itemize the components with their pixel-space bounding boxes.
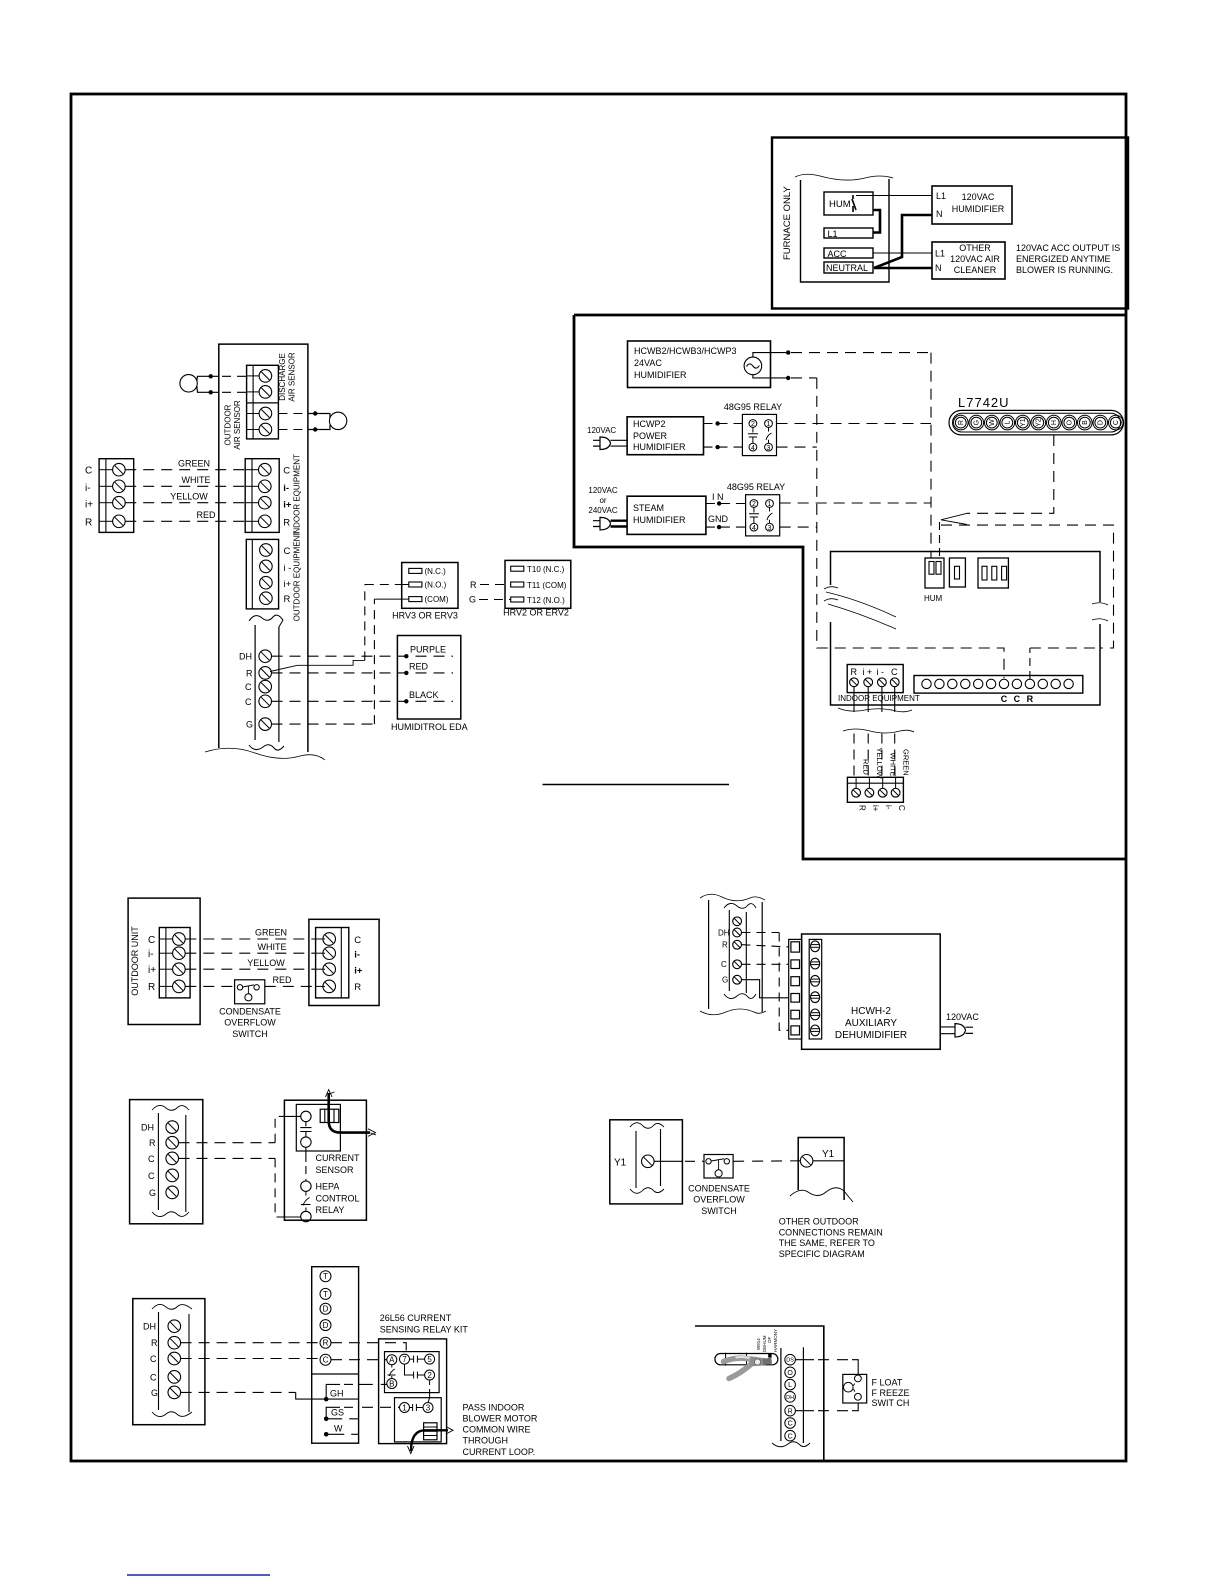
wire ACC to air cleaner L1 — [873, 252, 932, 254]
wires from indoor equipment block down — [854, 687, 895, 778]
svg-text:R: R — [788, 1408, 793, 1415]
svg-text:FURNACE ONLY: FURNACE ONLY — [782, 186, 793, 260]
svg-text:BLACK: BLACK — [409, 690, 439, 700]
26L56 section left strip box — [133, 1267, 538, 1457]
svg-text:WHITE: WHITE — [182, 475, 211, 485]
dashed wire to right Y1 — [733, 1160, 800, 1163]
svg-text:G: G — [149, 1188, 156, 1198]
svg-text:HEPA: HEPA — [316, 1182, 340, 1192]
svg-text:T12 (N.O.): T12 (N.O.) — [527, 596, 565, 605]
arrow into HUM — [941, 513, 967, 524]
svg-text:DISCHARGE: DISCHARGE — [278, 353, 287, 401]
svg-text:(N.O.): (N.O.) — [425, 581, 447, 590]
wire R to square1 — [742, 945, 789, 947]
svg-text:GS: GS — [331, 1408, 344, 1418]
capacitor between — [300, 1122, 311, 1137]
svg-text:5: 5 — [427, 1355, 432, 1364]
svg-text:HUMIDITROL EDA: HUMIDITROL EDA — [391, 722, 468, 732]
svg-text:B: B — [1082, 420, 1089, 425]
wire 24VAC top to junction — [753, 353, 786, 358]
svg-text:C: C — [148, 1171, 155, 1181]
svg-text:Y2: Y2 — [1036, 418, 1043, 427]
svg-text:240VAC: 240VAC — [588, 506, 617, 515]
svg-text:i-: i- — [283, 483, 289, 494]
svg-text:24VAC: 24VAC — [634, 358, 662, 368]
svg-text:C: C — [148, 935, 155, 946]
svg-text:i-: i- — [148, 949, 154, 960]
wire R to relay 7 — [181, 1342, 320, 1344]
svg-text:A: A — [389, 1356, 395, 1365]
svg-text:CURRENT: CURRENT — [316, 1153, 361, 1163]
box HCWB2/HCWB3/HCWP3 24VAC humidifier — [628, 341, 771, 388]
svg-text:R: R — [149, 1138, 156, 1148]
svg-text:C: C — [284, 546, 291, 557]
svg-text:PURPLE: PURPLE — [410, 645, 446, 655]
torn wavy lines — [838, 708, 912, 712]
svg-text:C: C — [897, 805, 906, 811]
current loop coil — [320, 1109, 339, 1122]
wire colour labels rotated — [862, 748, 911, 780]
svg-text:3: 3 — [768, 525, 772, 532]
inner strip — [729, 910, 746, 993]
svg-text:GH: GH — [330, 1389, 344, 1399]
12 circle terminal strip — [914, 676, 1083, 694]
terminal NEUTRAL — [824, 262, 873, 273]
svg-text:4: 4 — [752, 525, 756, 532]
screws column — [809, 939, 822, 1039]
right unit box — [309, 919, 379, 1005]
svg-text:C: C — [354, 935, 361, 946]
svg-text:SENSOR: SENSOR — [316, 1165, 355, 1175]
svg-text:ENERGIZED ANYTIME: ENERGIZED ANYTIME — [1016, 254, 1111, 264]
svg-text:RED: RED — [196, 510, 216, 520]
svg-text:RELAY: RELAY — [316, 1205, 345, 1215]
svg-text:AUXILIARY: AUXILIARY — [845, 1018, 897, 1029]
terminal HUM — [824, 192, 873, 215]
svg-text:Y1: Y1 — [614, 1157, 627, 1168]
svg-text:L1: L1 — [935, 249, 945, 259]
svg-text:L: L — [1005, 421, 1012, 425]
svg-text:F REEZE: F REEZE — [872, 1388, 910, 1398]
svg-text:RED: RED — [272, 975, 292, 985]
svg-text:T10 (N.C.): T10 (N.C.) — [527, 565, 565, 574]
box HCWP2 POWER HUMIDIFIER — [627, 417, 703, 455]
svg-text:SWIT CH: SWIT CH — [872, 1398, 910, 1408]
svg-text:POWER: POWER — [633, 431, 668, 441]
svg-text:HUMIDIFIER: HUMIDIFIER — [633, 515, 686, 525]
wire C to square2 — [742, 963, 789, 965]
svg-text:C: C — [1001, 694, 1008, 704]
svg-text:RED: RED — [409, 662, 429, 672]
svg-text:NEUTRAL: NEUTRAL — [826, 263, 868, 273]
svg-text:C: C — [85, 466, 92, 477]
svg-text:R: R — [148, 982, 155, 993]
svg-text:PASS INDOOR: PASS INDOOR — [463, 1402, 525, 1412]
wire C to BLACK — [272, 700, 454, 702]
svg-text:D: D — [323, 1321, 329, 1330]
svg-text:DH: DH — [143, 1322, 156, 1332]
HUM switch contact — [852, 195, 856, 212]
right box — [284, 1100, 366, 1220]
float freeze switch — [843, 1374, 867, 1403]
svg-text:ACC: ACC — [828, 249, 848, 259]
HRV3 box — [402, 563, 458, 609]
svg-text:C: C — [323, 1356, 329, 1365]
wire relay1 pin1 to collector — [777, 423, 932, 425]
svg-text:DS: DS — [786, 1358, 794, 1364]
svg-text:THROUGH: THROUGH — [463, 1436, 509, 1446]
wire R terminal up — [1029, 648, 1031, 679]
svg-text:GREEN: GREEN — [255, 928, 287, 938]
svg-text:C: C — [150, 1354, 157, 1364]
svg-text:HUM: HUM — [829, 199, 851, 210]
svg-text:or: or — [599, 496, 606, 505]
current sensor section left strip box — [130, 1090, 376, 1224]
relay kit inner box 1 — [385, 1352, 440, 1393]
wires HCWP2 to relay1 — [704, 423, 743, 425]
svg-text:R: R — [470, 580, 477, 590]
svg-text:i-: i- — [354, 950, 360, 961]
svg-text:R: R — [85, 518, 92, 529]
svg-text:120VAC: 120VAC — [946, 1012, 979, 1022]
current loop coil 26L56 — [424, 1423, 437, 1440]
wire relay1 pin3 to x817 — [777, 446, 817, 448]
svg-text:DEHUMIDIFIER: DEHUMIDIFIER — [835, 1030, 907, 1041]
wire relay2 pin1 to collector — [780, 502, 931, 504]
svg-text:C: C — [788, 1433, 793, 1440]
wire DH to PURPLE — [272, 655, 454, 657]
terminal squares strip — [789, 939, 802, 1039]
dashed vertical collector to HUM left — [930, 353, 932, 558]
inner torn strip — [636, 1129, 661, 1188]
svg-text:WHITE: WHITE — [889, 753, 898, 777]
furnace-only box — [772, 138, 1128, 309]
wire R to RED — [272, 672, 454, 674]
rule line under first diagram — [543, 784, 730, 786]
dashed to HUM right slot — [939, 522, 941, 558]
box STEAM HUMIDIFIER — [627, 496, 706, 534]
wire relay2 pin3 to x817 — [780, 526, 817, 528]
svg-text:i -: i - — [877, 667, 885, 677]
outdoor equipment block — [246, 539, 278, 609]
svg-text:N: N — [936, 209, 943, 219]
torn sketch lines — [826, 592, 896, 629]
svg-text:W914: W914 — [756, 1338, 761, 1350]
svg-text:HARMONY: HARMONY — [773, 1329, 778, 1352]
furnace sub-panel — [801, 179, 890, 282]
wire C to relay — [179, 1157, 276, 1159]
svg-text:C: C — [1014, 694, 1021, 704]
svg-text:3: 3 — [767, 445, 771, 452]
svg-text:AIR SENSOR: AIR SENSOR — [288, 352, 297, 402]
svg-text:W: W — [989, 419, 996, 426]
svg-text:R: R — [958, 420, 965, 425]
relay1 contact symbol — [766, 427, 772, 443]
svg-text:i+: i+ — [284, 579, 292, 590]
svg-text:D: D — [1098, 420, 1105, 425]
svg-text:STEAM: STEAM — [633, 503, 664, 513]
wire H down-left to arrow — [967, 435, 1054, 513]
current sensor inner box — [296, 1104, 340, 1151]
discharge air sensor bulb — [180, 375, 197, 392]
svg-text:R: R — [354, 982, 361, 993]
svg-text:26L56 CURRENT: 26L56 CURRENT — [380, 1313, 452, 1323]
pliers (grey) — [724, 1356, 773, 1378]
svg-text:L1: L1 — [828, 229, 838, 239]
middle column box — [312, 1267, 359, 1444]
svg-text:G: G — [722, 976, 728, 985]
transformer symbol — [744, 357, 762, 375]
svg-text:C: C — [283, 466, 290, 477]
svg-text:T: T — [323, 1272, 328, 1281]
wire 24VAC bottom to C — [753, 375, 786, 378]
svg-text:HRV3 OR ERV3: HRV3 OR ERV3 — [392, 611, 458, 621]
svg-text:i -: i - — [284, 563, 292, 574]
svg-text:GND: GND — [708, 514, 729, 524]
left wallplate 4-screw block — [99, 459, 134, 533]
svg-text:C: C — [1113, 420, 1120, 425]
wires to indoor block — [185, 938, 315, 940]
connector 3 — [978, 558, 1008, 588]
wire C to relay A — [181, 1358, 320, 1360]
terminal ACC — [824, 248, 873, 258]
svg-text:C: C — [788, 1421, 793, 1428]
GS bracket — [324, 1417, 329, 1422]
svg-text:SWITCH: SWITCH — [232, 1029, 268, 1039]
float freeze section boundary — [695, 1326, 910, 1460]
svg-text:OUTDOOR EQUIPMENT: OUTDOOR EQUIPMENT — [293, 531, 302, 622]
svg-text:W: W — [334, 1423, 343, 1433]
svg-text:48G95 RELAY: 48G95 RELAY — [727, 482, 785, 492]
svg-text:CONTROL: CONTROL — [316, 1193, 360, 1203]
svg-text:R: R — [722, 941, 728, 950]
svg-text:DH: DH — [718, 928, 730, 937]
svg-text:DH: DH — [239, 652, 252, 662]
left edge break marks — [824, 587, 838, 601]
DH strip first diagram — [255, 625, 279, 742]
svg-text:GREEN: GREEN — [178, 458, 210, 468]
outdoor unit terminal block — [159, 928, 190, 998]
svg-text:INDOOR EQUIPMENT: INDOOR EQUIPMENT — [838, 694, 920, 703]
svg-text:Y1: Y1 — [1020, 418, 1027, 427]
svg-text:R: R — [851, 667, 858, 677]
relay1 coil symbol — [748, 427, 758, 443]
svg-text:L7742U: L7742U — [958, 395, 1010, 410]
svg-text:R: R — [1027, 694, 1034, 704]
svg-text:i +: i + — [863, 667, 873, 677]
svg-text:i+: i+ — [871, 805, 880, 812]
svg-text:120VAC: 120VAC — [962, 192, 995, 202]
svg-text:i+: i+ — [85, 500, 93, 511]
dashed vertical x817 down to C wire — [817, 378, 1004, 678]
svg-text:(COM): (COM) — [425, 595, 449, 604]
svg-text:G: G — [151, 1388, 158, 1398]
relay kit outer box — [379, 1339, 447, 1444]
plug symbol 1 — [593, 437, 611, 450]
svg-text:OUTDOOR UNIT: OUTDOOR UNIT — [130, 926, 140, 996]
svg-text:O: O — [1067, 419, 1074, 425]
wire G to HRV3 COM — [272, 723, 375, 725]
svg-text:HUMIDIFIER: HUMIDIFIER — [952, 204, 1005, 214]
thick wire N humidifier to NEUTRAL — [874, 215, 932, 268]
relay kit inner box 2 — [395, 1398, 442, 1442]
svg-text:3: 3 — [426, 1403, 431, 1412]
svg-text:120VAC: 120VAC — [588, 486, 617, 495]
svg-text:R: R — [151, 1338, 158, 1348]
svg-text:R: R — [323, 1339, 329, 1348]
wire DS to float switch — [795, 1359, 814, 1361]
contact 7-5 — [410, 1356, 425, 1363]
svg-text:R: R — [858, 805, 867, 811]
svg-text:CURRENT LOOP.: CURRENT LOOP. — [463, 1447, 536, 1457]
svg-text:HUMIDIFIER: HUMIDIFIER — [634, 370, 687, 380]
svg-text:HRV2 OR ERV2: HRV2 OR ERV2 — [503, 608, 569, 618]
svg-text:F LOAT: F LOAT — [872, 1378, 903, 1388]
svg-text:I N: I N — [712, 492, 724, 502]
indoor equipment block — [245, 459, 279, 533]
svg-text:INDOOR EQUIPMENT: INDOOR EQUIPMENT — [293, 454, 302, 536]
condensate overflow switch — [235, 980, 265, 1004]
right terminal block — [316, 928, 349, 998]
svg-text:(N.C.): (N.C.) — [425, 567, 447, 576]
wire GS to relay 1 — [362, 1406, 400, 1408]
svg-text:7: 7 — [402, 1355, 407, 1364]
thick wire HUM box to L1 terminal — [873, 210, 880, 233]
svg-text:120VAC ACC OUTPUT IS: 120VAC ACC OUTPUT IS — [1016, 243, 1120, 253]
svg-text:CLEANER: CLEANER — [954, 265, 997, 275]
svg-text:CONNECTIONS REMAIN: CONNECTIONS REMAIN — [779, 1227, 883, 1237]
svg-text:i-: i- — [884, 805, 893, 810]
outdoor air sensor bulb — [329, 412, 346, 429]
wire R-terminal up right side — [941, 525, 1114, 648]
svg-text:C: C — [150, 1372, 157, 1382]
lower 4-screw block — [847, 777, 903, 802]
svg-text:i-: i- — [85, 483, 91, 494]
svg-text:C: C — [245, 697, 252, 707]
svg-text:R: R — [246, 668, 253, 678]
svg-text:OTHER: OTHER — [959, 243, 991, 253]
svg-text:2: 2 — [427, 1371, 432, 1380]
svg-text:C: C — [721, 960, 727, 969]
svg-text:HCWP2: HCWP2 — [633, 419, 666, 429]
svg-text:COMMON WIRE: COMMON WIRE — [463, 1425, 531, 1435]
rotated harmony text — [756, 1329, 778, 1352]
svg-text:R: R — [284, 594, 291, 605]
wavy torn top of sub-panel — [795, 174, 893, 180]
terminal L1 — [824, 228, 873, 238]
svg-text:L: L — [788, 1382, 792, 1389]
svg-text:SENSING RELAY KIT: SENSING RELAY KIT — [380, 1324, 469, 1334]
page border — [71, 94, 1126, 1461]
Y1 outdoor section — [610, 1120, 883, 1259]
svg-text:HUMIDIFIER: HUMIDIFIER — [633, 442, 686, 452]
svg-text:2: 2 — [752, 501, 756, 508]
footer blue underline — [127, 1574, 270, 1576]
svg-text:i+: i+ — [283, 500, 292, 511]
svg-text:48G95 RELAY: 48G95 RELAY — [724, 402, 782, 412]
HCWH-2 box — [802, 934, 941, 1049]
svg-text:B: B — [389, 1379, 394, 1388]
svg-text:GREEN: GREEN — [902, 749, 911, 776]
thick wire NEUTRAL to air cleaner N — [874, 267, 932, 270]
wire DH down to square6 — [742, 932, 780, 934]
R jog to HRV3 NO — [270, 660, 365, 671]
relay 2 box — [746, 495, 780, 536]
svg-text:OUTDOOR: OUTDOOR — [224, 404, 233, 445]
svg-text:C: C — [148, 1154, 155, 1164]
wire R to sensor — [179, 1142, 276, 1144]
wire R to float switch — [795, 1410, 814, 1412]
thermostat sub-base box — [824, 552, 1108, 812]
svg-text:DH: DH — [141, 1123, 154, 1133]
svg-text:OTHER OUTDOOR: OTHER OUTDOOR — [779, 1217, 859, 1227]
svg-text:O: O — [787, 1370, 793, 1377]
svg-text:WHITE: WHITE — [258, 942, 287, 952]
relay 1 box — [742, 414, 776, 455]
svg-text:BLOWER IS RUNNING.: BLOWER IS RUNNING. — [1016, 265, 1113, 275]
svg-text:YELLOW: YELLOW — [170, 491, 208, 501]
thick wire through loop — [411, 1430, 448, 1451]
svg-text:SWITCH: SWITCH — [701, 1206, 737, 1216]
svg-text:CONDENSATE: CONDENSATE — [219, 1007, 281, 1017]
wire G jog to square4 — [742, 980, 789, 998]
svg-text:G: G — [246, 720, 253, 730]
tall box torn bottom — [205, 748, 325, 760]
wire GH to B — [359, 1383, 387, 1385]
indoor equipment 4-screw block — [847, 665, 903, 693]
svg-text:2: 2 — [751, 421, 755, 428]
contact to 2 — [405, 1364, 425, 1378]
svg-text:1: 1 — [402, 1403, 407, 1412]
svg-text:SPECIFIC DIAGRAM: SPECIFIC DIAGRAM — [779, 1249, 865, 1259]
svg-text:OVERFLOW: OVERFLOW — [224, 1018, 276, 1028]
svg-text:120VAC: 120VAC — [587, 426, 616, 435]
HUMIDITROL EDA box — [397, 636, 460, 720]
wires wallplate to indoor equipment — [125, 469, 245, 471]
L7742U terminal strip — [949, 410, 1124, 435]
svg-text:Y1: Y1 — [822, 1149, 835, 1160]
svg-text:T: T — [323, 1290, 328, 1299]
plug symbol 2 — [593, 517, 611, 530]
svg-text:4: 4 — [751, 445, 755, 452]
svg-text:T11 (COM): T11 (COM) — [527, 581, 567, 590]
svg-text:YELLOW: YELLOW — [875, 748, 884, 780]
svg-text:RED: RED — [862, 759, 871, 775]
wire sensor bottom to HEPA relay — [305, 1147, 307, 1162]
svg-text:G: G — [469, 595, 476, 605]
condensate overflow switch Y1 — [704, 1155, 733, 1179]
svg-text:D: D — [323, 1305, 329, 1314]
second diagram outer box — [574, 315, 1126, 859]
switch A-B — [388, 1365, 396, 1379]
thick blower wire through loop — [329, 1093, 370, 1133]
svg-text:HCWB2/HCWB3/HCWP3: HCWB2/HCWB3/HCWP3 — [634, 346, 737, 356]
svg-text:THE SAME, REFER TO: THE SAME, REFER TO — [779, 1238, 875, 1248]
connector 2 — [949, 558, 965, 587]
svg-text:1: 1 — [768, 501, 772, 508]
GH bracket — [324, 1397, 329, 1402]
svg-text:120VAC AIR: 120VAC AIR — [950, 254, 1000, 264]
svg-text:C: C — [891, 667, 898, 677]
svg-text:OF: OF — [767, 1336, 772, 1343]
right edge break marks — [1092, 603, 1108, 621]
svg-text:L1: L1 — [936, 191, 946, 201]
svg-text:BLOWER MOTOR: BLOWER MOTOR — [463, 1413, 538, 1423]
svg-text:CONDENSATE: CONDENSATE — [688, 1183, 750, 1193]
svg-text:HCWH-2: HCWH-2 — [851, 1006, 891, 1017]
HRV2 box — [505, 560, 571, 608]
svg-text:HUM: HUM — [924, 594, 943, 603]
